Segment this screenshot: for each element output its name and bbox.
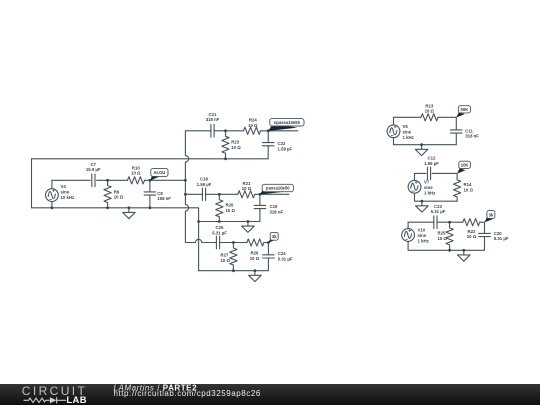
- svg-text:318 nF: 318 nF: [206, 117, 220, 122]
- capacitor C18: [202, 188, 205, 201]
- node 3k (circuit3): [485, 211, 495, 223]
- node passa10e50: [260, 184, 294, 194]
- node ALOU: [150, 168, 168, 180]
- svg-text:5.31 µF: 5.31 µF: [431, 209, 446, 214]
- wire: circuit1 bottom rail: [394, 133, 457, 145]
- svg-text:R26: R26: [251, 251, 259, 256]
- svg-text:5.31 µF: 5.31 µF: [212, 230, 227, 235]
- svg-text:C20: C20: [494, 231, 502, 236]
- wire: V5 top stub: [393, 117, 395, 125]
- svg-text:V5: V5: [403, 124, 409, 129]
- wire: block1 top rail: [185, 130, 268, 132]
- node 10K: [457, 161, 470, 173]
- junction ground block2: [247, 220, 250, 223]
- svg-text:10 Ω: 10 Ω: [226, 208, 236, 213]
- node 3k (block3): [268, 232, 278, 242]
- resistor R27 with leads: [232, 243, 234, 271]
- svg-text:C18: C18: [200, 177, 208, 182]
- wire: V10 top stub: [407, 222, 409, 228]
- junction ground circuit1: [420, 143, 423, 146]
- bottom bar: [0, 383, 540, 405]
- resistor R26: [247, 239, 264, 246]
- capacitor C22 with top lead: [267, 131, 269, 143]
- wire: vertical A: [185, 131, 188, 243]
- capacitor C11 with top lead: [455, 117, 457, 130]
- svg-text:10 Ω: 10 Ω: [425, 109, 435, 114]
- svg-text:10 Ω: 10 Ω: [467, 234, 477, 239]
- wire: left top rail segments around C7 and R10: [52, 179, 186, 181]
- junction ground block3: [254, 269, 257, 272]
- svg-text:http://circuitlab.com/cpd3259a: http://circuitlab.com/cpd3259ap8c26: [114, 389, 261, 398]
- node 3k junction: [267, 241, 270, 244]
- svg-text:1.59 µF: 1.59 µF: [424, 161, 439, 166]
- wire: right circuit3 top rail: [408, 221, 484, 223]
- svg-text:15.9 µF: 15.9 µF: [86, 167, 101, 172]
- node npassa10e50: [268, 119, 304, 131]
- junction ground circuit2: [421, 200, 424, 203]
- svg-text:C8: C8: [157, 191, 163, 196]
- svg-text:3k: 3k: [489, 212, 494, 217]
- svg-text:C7: C7: [90, 162, 96, 167]
- svg-text:318 nF: 318 nF: [270, 209, 284, 214]
- svg-text:10 Ω: 10 Ω: [248, 123, 258, 128]
- svg-text:C19: C19: [270, 204, 278, 209]
- svg-text:10 Ω: 10 Ω: [221, 258, 231, 263]
- svg-text:C11: C11: [465, 128, 473, 133]
- svg-text:R23: R23: [231, 140, 239, 145]
- wire: left loop top rail to block1 bottom rail (hops over vertical A): [32, 146, 269, 159]
- capacitor C25: [216, 236, 219, 249]
- wire: block3 bottom rail: [199, 258, 269, 271]
- logo resistor zigzag and diode: [24, 397, 67, 403]
- wire: block2 bottom rail: [199, 209, 260, 222]
- junction R20 top: [218, 193, 221, 196]
- svg-text:sine: sine: [424, 185, 433, 190]
- svg-text:5.31 µF: 5.31 µF: [278, 257, 293, 262]
- svg-text:318 nF: 318 nF: [465, 134, 479, 139]
- svg-text:V10: V10: [418, 228, 426, 233]
- svg-text:10 Ω: 10 Ω: [464, 187, 474, 192]
- svg-text:10 Ω: 10 Ω: [438, 236, 448, 241]
- capacitor C19 with top lead: [259, 194, 261, 205]
- junction R25 top: [448, 221, 451, 224]
- svg-text:10 Ω: 10 Ω: [250, 256, 260, 261]
- resistor R9: [104, 186, 111, 203]
- svg-text:C25: C25: [216, 225, 224, 230]
- capacitor C20 with top lead: [484, 222, 486, 233]
- svg-text:C24: C24: [278, 251, 286, 256]
- svg-text:npassa10e50: npassa10e50: [274, 120, 301, 125]
- voltage source V7: [408, 180, 421, 193]
- svg-text:1 kHz: 1 kHz: [424, 191, 435, 196]
- junction ground circuit3: [462, 249, 465, 252]
- resistor R23 with leads: [225, 131, 227, 159]
- junction R25 bottom: [448, 249, 451, 252]
- ground circuit1: [415, 145, 428, 156]
- ground block2: [242, 222, 255, 233]
- ground circuit2: [416, 201, 429, 212]
- svg-text:R14: R14: [464, 182, 472, 187]
- resistor R25 with leads: [449, 222, 451, 250]
- svg-text:R13: R13: [425, 103, 433, 108]
- voltage source V5: [387, 125, 400, 138]
- ground circuit3: [458, 250, 471, 261]
- junction R23 bottom: [224, 157, 227, 160]
- svg-text:R25: R25: [438, 231, 446, 236]
- svg-text:10 Ω: 10 Ω: [231, 145, 241, 150]
- ground block3: [249, 271, 262, 282]
- resistor R13: [421, 114, 438, 121]
- junction R9 bottom: [106, 206, 109, 209]
- wire: left loop left vertical: [31, 159, 33, 208]
- node passa10e50 junction: [259, 193, 262, 196]
- svg-text:ALOU: ALOU: [153, 170, 165, 175]
- capacitor C7: [92, 174, 95, 187]
- svg-text:R22: R22: [468, 229, 476, 234]
- wire: npassa10e50 flag stub: [268, 130, 298, 132]
- svg-text:5.31 µF: 5.31 µF: [494, 236, 509, 241]
- capacitor C23: [434, 216, 437, 229]
- voltage source V4: [46, 189, 59, 202]
- junction R27 bottom: [232, 269, 235, 272]
- node flags: [150, 106, 495, 243]
- capacitor C24 with top lead: [267, 243, 269, 255]
- svg-text:R21: R21: [243, 181, 251, 186]
- svg-text:10 Ω: 10 Ω: [114, 195, 124, 200]
- capacitor C12: [427, 167, 430, 180]
- svg-text:C12: C12: [428, 156, 436, 161]
- wire: right circuit1 top rail: [394, 116, 457, 118]
- svg-text:passa10e50: passa10e50: [266, 186, 290, 191]
- capacitor C8: [144, 192, 156, 195]
- junction R9 top: [106, 179, 109, 182]
- junction R20 bottom: [218, 220, 221, 223]
- svg-text:10K: 10K: [461, 163, 469, 168]
- resistor R24: [244, 127, 261, 134]
- resistor R21: [238, 191, 255, 198]
- resistor R20 with leads: [218, 194, 220, 221]
- svg-text:1 kHz: 1 kHz: [403, 135, 414, 140]
- resistor R22: [463, 219, 480, 226]
- wire: passa10e50 flag stub: [260, 193, 289, 195]
- ground left: [123, 208, 136, 219]
- svg-text:1.59 µF: 1.59 µF: [278, 146, 293, 151]
- node ALOU junction: [149, 179, 152, 182]
- junction V4 bottom: [51, 206, 54, 209]
- svg-text:10 kHz: 10 kHz: [61, 195, 75, 200]
- svg-text:1.59 µF: 1.59 µF: [197, 182, 212, 187]
- svg-text:3k: 3k: [272, 234, 277, 239]
- wire: circuit3 bottom rail: [408, 237, 484, 251]
- svg-text:1 kHz: 1 kHz: [418, 239, 429, 244]
- voltage source V10: [402, 229, 415, 242]
- svg-text:R9: R9: [114, 189, 120, 194]
- resistor R14 with leads: [456, 173, 458, 201]
- wire: left bottom rail (hops over vertical A) then down as vertical B: [32, 208, 199, 271]
- wire: block3 top rail (hops over vertical B): [185, 239, 268, 242]
- svg-text:sine: sine: [61, 190, 70, 195]
- svg-text:R24: R24: [249, 118, 257, 123]
- junction C8 bottom: [149, 206, 152, 209]
- resistor R10: [128, 177, 145, 184]
- junction R27 top: [232, 241, 235, 244]
- svg-text:50K: 50K: [461, 107, 469, 112]
- wire: V7 top stub: [414, 173, 416, 180]
- svg-text:C21: C21: [209, 112, 217, 117]
- svg-text:LAB: LAB: [66, 394, 86, 405]
- svg-text:R27: R27: [221, 253, 229, 258]
- svg-text:V4: V4: [61, 184, 67, 189]
- junction ground left: [127, 206, 130, 209]
- wire: block2 rail: [185, 193, 260, 195]
- svg-text:10 Ω: 10 Ω: [242, 186, 252, 191]
- svg-text:C23: C23: [434, 204, 442, 209]
- wire: right circuit2 top rail: [415, 172, 458, 174]
- svg-text:sine: sine: [418, 233, 427, 238]
- wire: R9 leads: [107, 180, 109, 208]
- junction B-block2 rail: [197, 220, 200, 223]
- junction A-ALOU wire: [184, 179, 187, 182]
- svg-text:C22: C22: [278, 141, 286, 146]
- node npassa10e50 junction: [267, 129, 270, 132]
- svg-text:158 nF: 158 nF: [157, 196, 171, 201]
- wire: circuit2 bottom rail: [415, 193, 458, 201]
- svg-text:R10: R10: [132, 165, 140, 170]
- svg-text:V7: V7: [424, 180, 430, 185]
- junction A-block2 wire: [184, 193, 187, 196]
- svg-text:sine: sine: [403, 130, 412, 135]
- svg-text:R20: R20: [226, 203, 234, 208]
- capacitor C21: [211, 125, 214, 138]
- wire: C8 leads: [149, 180, 151, 208]
- svg-text:10 Ω: 10 Ω: [131, 171, 141, 176]
- wire: V4 bottom stub: [51, 202, 53, 208]
- junction R23 top: [224, 129, 227, 132]
- wire: V4 top stub: [51, 180, 53, 188]
- node 50K: [456, 106, 470, 118]
